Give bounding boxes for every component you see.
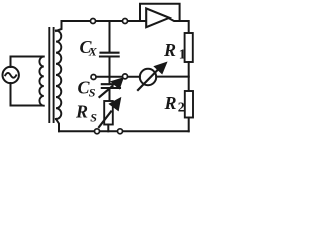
svg-text:X: X: [88, 45, 98, 59]
svg-text:S: S: [89, 86, 96, 100]
wire R2 bottom lead: [188, 118, 190, 132]
wire top rail: [62, 20, 147, 22]
resistor R2: [185, 91, 193, 118]
op-amp A1 triangle: [146, 8, 169, 27]
wire Cs branch upper: [109, 77, 111, 84]
wire bottom rail: [59, 130, 189, 132]
op-amp A1 feedback loop: [140, 4, 180, 21]
svg-text:2: 2: [178, 101, 185, 116]
terminal node top left: [91, 19, 96, 24]
wire source bottom lead: [11, 83, 43, 106]
terminal node bottom left: [95, 129, 100, 134]
wire Cx branch lower: [109, 57, 111, 77]
wire R1 to middle node: [188, 62, 190, 91]
wire amp output to right rail: [169, 19, 188, 34]
galvanometer P1: [140, 69, 156, 85]
variable capacitor Cs: [102, 84, 120, 88]
terminal node middle right: [123, 74, 128, 79]
wire secondary bottom riser: [56, 119, 59, 131]
terminal node middle left: [91, 75, 96, 80]
wire secondary top riser: [56, 21, 62, 31]
terminal node bottom right: [118, 129, 123, 134]
variable capacitor Cs arrow: [100, 86, 113, 97]
svg-text:1: 1: [179, 48, 186, 63]
variable resistor Rs arrow: [99, 112, 111, 128]
variable resistor Rs: [104, 101, 113, 125]
svg-text:R: R: [75, 102, 88, 122]
wire Cx branch upper: [109, 21, 111, 52]
sine wave inside source: [5, 73, 16, 78]
AC source G1: [3, 67, 19, 83]
transformer T1 primary winding: [39, 57, 43, 106]
svg-text:R: R: [164, 93, 177, 113]
resistor R1: [185, 33, 193, 62]
svg-text:S: S: [90, 111, 97, 125]
terminal node top right: [123, 19, 128, 24]
wire Rs bottom lead: [107, 125, 109, 132]
transformer core: [49, 28, 53, 122]
svg-text:R: R: [163, 40, 176, 60]
transformer T1 secondary winding: [56, 31, 61, 120]
wire middle rail: [96, 76, 189, 78]
wire source top lead: [11, 57, 43, 68]
wire Cs to Rs: [109, 89, 111, 102]
capacitor Cx: [100, 53, 119, 57]
